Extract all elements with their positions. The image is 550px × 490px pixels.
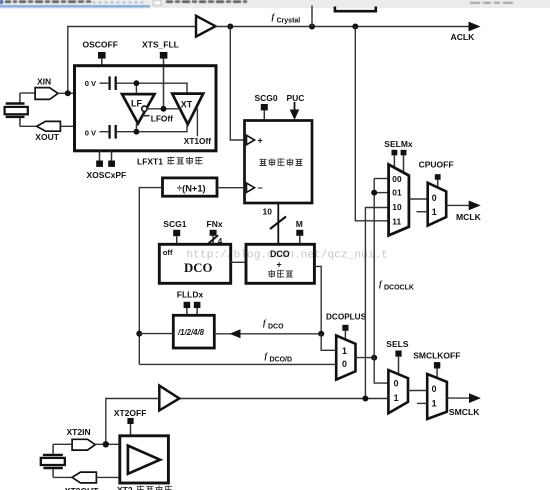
node: bottom cap junction bbox=[134, 129, 140, 135]
svg-text:SMCLK: SMCLK bbox=[449, 407, 480, 417]
svg-text:f: f bbox=[263, 319, 267, 328]
wire: XT2 junction up to buffer input bbox=[106, 399, 160, 445]
svg-text:ACLK: ACLK bbox=[451, 32, 476, 42]
svg-text:LFXT1: LFXT1 bbox=[137, 157, 163, 167]
svg-text:LF: LF bbox=[131, 99, 142, 109]
svg-text:XT2OUT: XT2OUT bbox=[65, 486, 99, 490]
wire: MCLK output bbox=[446, 204, 470, 206]
block frequency integrator bbox=[245, 121, 313, 204]
label frequency integrator (CJK) bbox=[259, 158, 302, 166]
wire: XOSCxPF stem 1 bbox=[99, 151, 101, 161]
terminal FLLDx 1 bbox=[184, 302, 191, 308]
svg-text:1: 1 bbox=[394, 393, 399, 403]
label modulator (CJK) bbox=[268, 270, 293, 278]
svg-text:SELMx: SELMx bbox=[384, 139, 413, 149]
wire: DCO modulator output down bbox=[314, 266, 321, 333]
pin symbol XIN bbox=[35, 88, 58, 100]
node: junction at x=355 (ACLK tap) bbox=[352, 24, 358, 30]
wire: SCG0 stem bbox=[263, 110, 265, 121]
wire: LF bubble to XT enable bbox=[147, 108, 178, 110]
svg-text:OSCOFF: OSCOFF bbox=[83, 40, 118, 50]
wire: N+1 output to integrator minus bbox=[217, 187, 245, 189]
node: XT2CLK junction bbox=[362, 396, 368, 402]
crystal Y2 (XT2 crystal) bbox=[41, 444, 65, 477]
block DCO bbox=[159, 244, 230, 283]
terminal XT2OFF bbox=[127, 418, 133, 424]
wire: XOSCxPF stem 2 bbox=[111, 151, 113, 161]
wire: DCO to modulator link bbox=[231, 261, 246, 263]
wire: M stem bbox=[299, 236, 301, 245]
svg-text:Crystal: Crystal bbox=[277, 17, 301, 24]
svg-text:M: M bbox=[296, 219, 303, 229]
terminal XTS_FLL bbox=[160, 52, 168, 59]
mux SELS bbox=[388, 370, 408, 413]
bus slash 10 bbox=[270, 217, 286, 230]
arrowhead MCLK bbox=[469, 201, 481, 211]
buffer U1 (LFXT1CLK buffer) bbox=[196, 16, 216, 37]
svg-text:XT1Off: XT1Off bbox=[184, 136, 211, 146]
buffer inside XT2 box bbox=[128, 446, 160, 474]
terminal FNx bbox=[210, 230, 217, 236]
svg-text:SELS: SELS bbox=[386, 339, 409, 349]
svg-text:off: off bbox=[163, 248, 173, 257]
svg-text:SCG1: SCG1 bbox=[163, 219, 186, 229]
wire: CPUOFF stem bbox=[437, 180, 439, 188]
wire: divider left to feedback line bbox=[139, 333, 173, 335]
wire: SELMx output bbox=[409, 198, 428, 200]
svg-text:f: f bbox=[272, 12, 276, 22]
wire: FLLDx stem 2 bbox=[196, 308, 198, 315]
wire: SCG1 stem bbox=[176, 236, 178, 244]
wire: bottom cap rail bbox=[117, 124, 187, 132]
svg-text:MCLK: MCLK bbox=[456, 212, 482, 222]
arrowhead ACLK bbox=[469, 22, 481, 32]
wire: XT2CLK line from buffer to SELS input 1 bbox=[179, 398, 389, 400]
inverter XT bbox=[172, 94, 203, 125]
wire: SMCLK output bbox=[447, 397, 470, 399]
node: top cap junction bbox=[134, 80, 140, 86]
label XT2 high-frequency crystal (cut) bbox=[117, 485, 172, 490]
block DCO + modulator bbox=[246, 244, 314, 283]
arrowhead PUC bbox=[290, 110, 300, 121]
wire: fDCO into divider bbox=[214, 333, 321, 335]
node: junction after buffer U1 bbox=[227, 24, 233, 30]
wire: top rail to ACLK bbox=[216, 26, 471, 28]
wire: buffer junction down to integrator + input bbox=[230, 27, 244, 141]
svg-text:DCO: DCO bbox=[270, 249, 290, 259]
arrowhead SMCLK bbox=[469, 393, 481, 403]
node: XTS_FLL junction bbox=[161, 106, 167, 112]
svg-text:0: 0 bbox=[342, 359, 347, 369]
svg-text:FNx: FNx bbox=[207, 219, 223, 229]
svg-text:XIN: XIN bbox=[37, 76, 51, 86]
wire: stub up from x=312 junction bbox=[311, 6, 313, 27]
wire: SELMx input 01 bbox=[374, 192, 388, 194]
svg-text:CPUOFF: CPUOFF bbox=[419, 160, 454, 170]
node: XT2IN junction bbox=[103, 441, 109, 447]
wire: SELMx stem 1 bbox=[393, 155, 395, 168]
svg-text:0 V: 0 V bbox=[85, 79, 97, 88]
wire: SELS stem bbox=[398, 357, 400, 375]
terminal OSCOFF bbox=[98, 52, 106, 59]
wire: SMCLKOFF stub input 1 bbox=[417, 402, 427, 404]
svg-text:11: 11 bbox=[392, 216, 401, 226]
svg-text:0: 0 bbox=[432, 193, 437, 203]
wire: XT1Off stub bbox=[196, 109, 198, 137]
mux DCOPLUS bbox=[336, 336, 355, 380]
wire: XT2 crystal to XT2IN pin bbox=[53, 443, 72, 445]
node: XIN junction bbox=[65, 90, 71, 96]
node: fDCOCLK junction bbox=[371, 355, 377, 361]
wire: DCOPLUS stem bbox=[344, 331, 346, 340]
svg-text:XT2: XT2 bbox=[117, 485, 133, 490]
wire: fDCO/D to DCOPLUS mux input 0 bbox=[139, 363, 337, 365]
wire: SELS output bbox=[408, 390, 427, 392]
terminal XOSCxPF 1 bbox=[96, 161, 103, 167]
divider box (cut off at top) bbox=[335, 7, 376, 12]
svg-text:XOUT: XOUT bbox=[35, 132, 59, 142]
svg-text:DCOPLUS: DCOPLUS bbox=[326, 312, 367, 321]
svg-text:−: − bbox=[258, 183, 263, 193]
terminal SMCLKOFF bbox=[434, 362, 440, 368]
wire: PUC stem bbox=[294, 102, 296, 111]
wire: CPUOFF stub input 1 bbox=[417, 211, 428, 213]
pin chevron - input bbox=[247, 183, 255, 192]
capacitor C2 bbox=[100, 125, 116, 139]
label LFXT1 low-frequency crystal bbox=[137, 157, 202, 167]
block divide by N+1 bbox=[163, 178, 218, 196]
svg-text:1: 1 bbox=[432, 207, 437, 217]
wire: ACLK tap down to SELMx input 11 bbox=[355, 27, 388, 221]
svg-text:FLLDx: FLLDx bbox=[177, 289, 204, 299]
wire: OSCOFF stem bbox=[101, 59, 103, 66]
wire: LF apex to bottom rail bbox=[135, 123, 137, 131]
svg-text:SCG0: SCG0 bbox=[255, 93, 278, 103]
label fDCO/D bbox=[265, 351, 293, 363]
svg-text:+: + bbox=[277, 260, 282, 270]
node: DCOCLK tap junction bbox=[371, 190, 377, 196]
svg-text:/1/2/4/8: /1/2/4/8 bbox=[177, 328, 205, 337]
svg-text:DCO/D: DCO/D bbox=[270, 356, 293, 363]
svg-text:÷(N+1): ÷(N+1) bbox=[177, 183, 206, 193]
pin symbol XOUT bbox=[37, 121, 61, 131]
wire: SELMx stem 2 bbox=[403, 155, 405, 173]
mux SELMx bbox=[389, 165, 409, 236]
wire: XTS_FLL stem into box bbox=[163, 59, 165, 109]
wire: down to DCOPLUS input 1 bbox=[321, 334, 337, 351]
terminal SCG1 bbox=[173, 230, 180, 236]
terminal SELMx 1 bbox=[392, 150, 398, 156]
svg-text:f: f bbox=[265, 351, 269, 360]
wire: DCOPLUS output bbox=[356, 357, 375, 359]
block divider /1/2/4/8 bbox=[173, 315, 214, 348]
inverter LF bbox=[122, 94, 155, 123]
terminal SCG0 bbox=[261, 104, 268, 110]
bus slash 4 bbox=[209, 235, 219, 243]
terminal SELMx 2 bbox=[401, 150, 407, 156]
wire: FNx stem bbox=[212, 236, 214, 245]
arrowhead fDCO bbox=[230, 329, 241, 338]
svg-text:10: 10 bbox=[263, 207, 273, 217]
svg-text:XT: XT bbox=[181, 99, 193, 109]
label fDCO bbox=[263, 319, 284, 331]
block LFXT1 oscillator box bbox=[75, 66, 217, 151]
svg-text:DCO: DCO bbox=[184, 261, 212, 275]
mux CPUOFF bbox=[428, 183, 447, 226]
wire: FLLDx stem 1 bbox=[186, 308, 188, 315]
block XT2 oscillator box bbox=[120, 436, 169, 483]
terminal CPUOFF bbox=[435, 174, 441, 180]
svg-text:XT2OFF: XT2OFF bbox=[114, 408, 147, 418]
buffer U2 (XT2CLK buffer) bbox=[159, 386, 179, 411]
wire: crystal to XT2OUT pin bbox=[53, 476, 72, 478]
wire: XT2OUT pin to XT2 box bbox=[96, 476, 119, 478]
mux SMCLKOFF bbox=[427, 374, 447, 419]
svg-text:XOSCxPF: XOSCxPF bbox=[87, 170, 127, 180]
wire: LFOff stub bbox=[142, 115, 150, 117]
pin symbol XT2OUT bbox=[72, 472, 96, 483]
svg-text:DCOCLK: DCOCLK bbox=[384, 285, 414, 292]
svg-text:XTS_FLL: XTS_FLL bbox=[142, 40, 179, 50]
wire: SELMx input 00 bbox=[374, 178, 388, 180]
terminal SELS bbox=[395, 351, 401, 357]
svg-text:0 V: 0 V bbox=[85, 129, 97, 138]
svg-text:PUC: PUC bbox=[287, 93, 305, 103]
bubble on LF output bbox=[142, 106, 147, 111]
wire: XT2CLK vertical rail to SELMx input 10 bbox=[365, 208, 388, 399]
wire: crystal to XIN pin bbox=[20, 92, 35, 94]
wire: top cap rail bbox=[117, 83, 187, 93]
svg-text:10: 10 bbox=[392, 202, 402, 212]
svg-text:XT2IN: XT2IN bbox=[67, 427, 91, 437]
wire: fDCOCLK vertical rail bbox=[374, 179, 388, 384]
wire: 10-bit bus integrator to DCO modulator bbox=[277, 203, 279, 244]
label fCrystal bbox=[272, 12, 301, 25]
wire: crystal to XOUT pin bbox=[20, 125, 37, 127]
terminal DCOPLUS bbox=[342, 325, 348, 331]
browser toolbar strip bbox=[0, 0, 550, 9]
terminal XOSCxPF 2 bbox=[108, 161, 115, 167]
wire: XOUT pin to LFXT1 box bbox=[60, 125, 74, 127]
label fDCOCLK bbox=[379, 280, 414, 292]
wire: XT2OFF stem bbox=[130, 424, 132, 436]
svg-text:DCO: DCO bbox=[268, 324, 284, 331]
svg-text:+: + bbox=[258, 136, 263, 146]
svg-text:f: f bbox=[379, 280, 383, 289]
wire: divider feedback up to N+1 bbox=[139, 188, 162, 365]
capacitor C1 bbox=[100, 76, 116, 90]
svg-text:1: 1 bbox=[342, 346, 347, 356]
pin symbol XT2IN bbox=[72, 439, 95, 450]
svg-text:0: 0 bbox=[394, 379, 399, 389]
terminal M bbox=[296, 230, 303, 236]
wire: XT2IN pin to XT2 box bbox=[95, 443, 120, 445]
svg-text:01: 01 bbox=[392, 188, 402, 198]
svg-text:00: 00 bbox=[392, 174, 402, 184]
svg-text:1: 1 bbox=[432, 399, 437, 409]
svg-text:LFOff: LFOff bbox=[151, 114, 173, 124]
crystal Y1 (LFXT1 watch crystal) bbox=[5, 93, 28, 126]
terminal FLLDx 2 bbox=[194, 302, 201, 308]
wire: XIN pin to LFXT1 box bbox=[58, 92, 75, 94]
svg-text:0: 0 bbox=[432, 384, 437, 394]
svg-text:SMCLKOFF: SMCLKOFF bbox=[413, 350, 460, 360]
wire: XIN junction up to top rail bbox=[68, 27, 196, 94]
wire: SMCLKOFF stem bbox=[436, 369, 438, 380]
node: fDCO junction bbox=[318, 331, 324, 337]
node: junction at x=312 bbox=[309, 24, 315, 30]
node: divider output junction bbox=[136, 331, 142, 337]
pin chevron + input bbox=[247, 135, 255, 144]
wire: drop to LF input bbox=[135, 83, 137, 94]
